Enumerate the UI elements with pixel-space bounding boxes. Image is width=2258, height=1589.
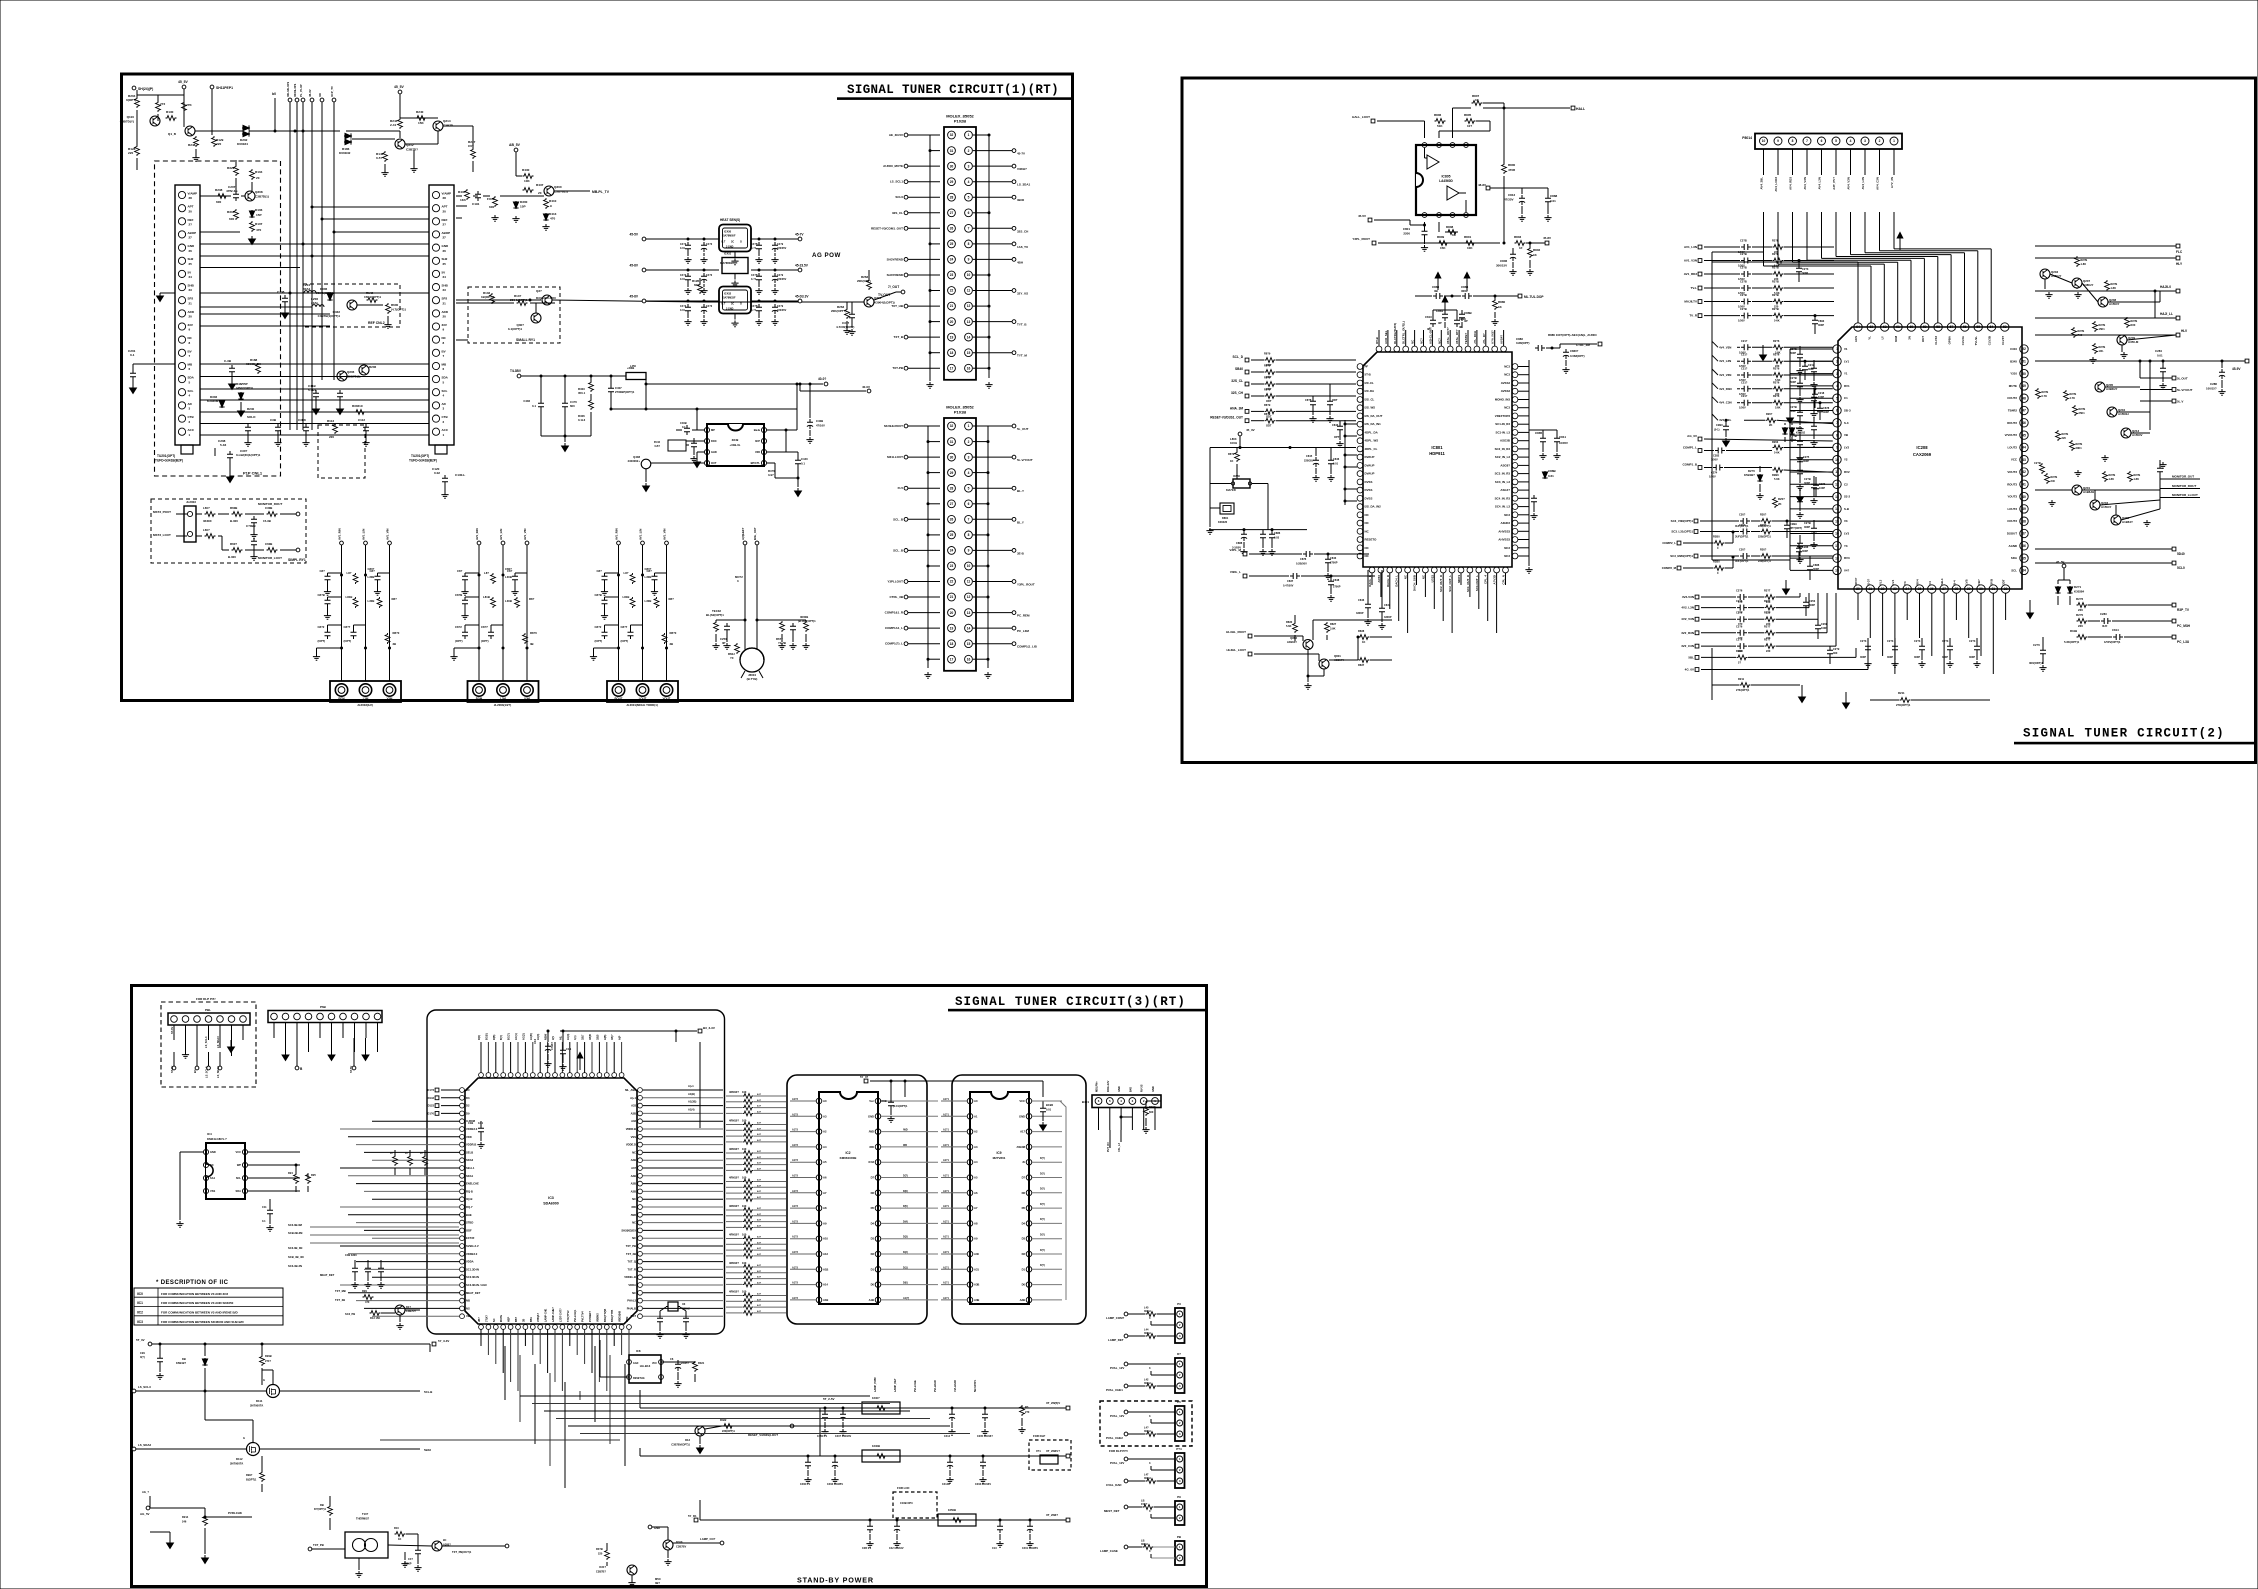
svg-text:51K: 51K: [1437, 124, 1443, 128]
svg-text:ODT: ODT: [1332, 398, 1338, 402]
input COMP2_L: [1677, 541, 1681, 545]
svg-text:V3PL_M: V3PL_M: [1229, 548, 1241, 552]
wire: [1442, 573, 1444, 621]
pin 11 RV2: [1833, 468, 1841, 476]
terminal 3034L3P1: [295, 98, 299, 102]
wire: [643, 1268, 723, 1270]
capacitor series: [1741, 400, 1751, 406]
svg-text:R2?7: R2?7: [1764, 624, 1771, 628]
svg-text:C112: C112: [358, 418, 365, 422]
svg-text:BC(0): BC(0): [485, 1033, 488, 1040]
svg-text:C21?: C21?: [1741, 367, 1748, 371]
diode D808 1K: [1447, 230, 1458, 235]
wire: [200, 411, 429, 413]
svg-text:8: 8: [1792, 139, 1794, 143]
pin 19: [948, 624, 956, 632]
svg-text:A1?: A1?: [757, 1304, 762, 1307]
svg-text:C4?B: C4?B: [751, 305, 758, 308]
svg-text:274?: 274?: [265, 1359, 271, 1363]
rail DVAUP: [1210, 447, 1356, 449]
svg-text:C203 300/16V: C203 300/16V: [975, 1483, 991, 1486]
capacitor input B: [703, 300, 706, 303]
pin 30: [948, 162, 956, 170]
resistor R321: [693, 1361, 698, 1372]
wire: [1032, 1284, 1062, 1286]
svg-text:RESET-V3/D3S1_OUT: RESET-V3/D3S1_OUT: [1210, 416, 1243, 420]
svg-text:20: 20: [538, 191, 542, 195]
wire: [621, 1329, 623, 1355]
svg-text:12: 12: [967, 595, 971, 599]
pin MEAT_DET: [460, 1290, 465, 1295]
wire: [1784, 374, 1833, 376]
svg-text:300P: 300P: [1808, 367, 1814, 371]
pin bottom NC: [1423, 567, 1429, 573]
wire TXT_B: [908, 336, 940, 338]
svg-text:A3HD3: A3HD3: [1501, 521, 1511, 525]
svg-text:P6B: P6B: [320, 1005, 327, 1009]
svg-text:SC2_OUT_L: SC2_OUT_L: [1448, 575, 1452, 592]
resistor R240 15K: [416, 116, 427, 121]
wire: [881, 1207, 938, 1209]
svg-text:1F: 1F: [1519, 246, 1523, 250]
wire: [348, 1214, 460, 1216]
svg-text:LS_SCL3: LS_SCL3: [204, 1036, 208, 1048]
wire 32S_CL: [908, 212, 940, 214]
pin top DLCTRL_OUT(L): [1403, 346, 1409, 352]
capacitor C407 2700BP(OPT): [610, 375, 613, 378]
wire: [928, 472, 940, 474]
svg-text:REF CNL2: REF CNL2: [368, 321, 385, 325]
pin 59: [1921, 323, 1929, 331]
wire: [137, 94, 158, 96]
svg-text:A1?1: A1?1: [943, 1098, 950, 1101]
svg-text:FOR COMMUNICATION BETWEEN V3 A: FOR COMMUNICATION BETWEEN V3 AND SD4650: [161, 1301, 234, 1305]
output 5L.V: [2140, 400, 2172, 402]
svg-text:C4B 3300: C4B 3300: [345, 1253, 357, 1257]
svg-text:PVLLDAD: PVLLDAD: [934, 1380, 937, 1392]
pin top XTAL_OUT?: [1447, 346, 1453, 352]
pin 5 SDA: [178, 376, 185, 383]
node: [526, 647, 529, 650]
wire: [502, 1042, 504, 1073]
wire: [1032, 1115, 1062, 1117]
pin bottom SC2_OUT_R: [1440, 567, 1446, 573]
svg-text:XTAL_DT?: XTAL_DT?: [1455, 329, 1459, 344]
wire: [372, 1276, 460, 1278]
svg-text:56: 56: [1963, 325, 1967, 329]
svg-text:27K(OPT)1: 27K(OPT)1: [1736, 688, 1750, 692]
wire: [1345, 500, 1357, 502]
svg-text:A1?: A1?: [757, 1196, 762, 1199]
svg-text:D1: D1: [1022, 1267, 1026, 1271]
svg-text:C275: C275: [1803, 455, 1810, 459]
pin A3B: [638, 1189, 643, 1194]
terminal D1?3: [435, 1088, 439, 1092]
svg-text:19: 19: [950, 626, 954, 630]
pin A8: [967, 1221, 973, 1227]
terminal 3CP_TV: [332, 98, 336, 102]
svg-text:A33: A33: [631, 1104, 636, 1108]
wire CVAL_DAD: [1146, 1479, 1157, 1484]
svg-text:C878: C878: [1823, 406, 1830, 410]
terminal D143: [435, 1096, 439, 1100]
svg-text:A1?3: A1?3: [792, 1282, 799, 1285]
svg-text:VDDE.D: VDDE.D: [626, 1143, 636, 1147]
terminal 3D: [320, 98, 324, 102]
svg-text:SB40: SB40: [1235, 367, 1243, 371]
svg-text:R238: R238: [215, 188, 223, 192]
svg-text:A1?: A1?: [757, 1184, 762, 1187]
svg-text:R3L_OUT: R3L_OUT: [753, 527, 757, 540]
svg-text:B(7): B(7): [500, 1035, 503, 1040]
pin B3H(TTV)B: [604, 1325, 609, 1330]
pin 21: [948, 302, 956, 310]
svg-text:R430: R430: [522, 168, 530, 172]
svg-text:C2B9: C2B9: [1790, 522, 1797, 526]
terminal: [525, 541, 529, 545]
svg-text:A1?: A1?: [757, 1224, 762, 1227]
svg-text:63: 63: [1869, 325, 1873, 329]
terminal: [364, 541, 368, 545]
rail 3: [700, 1519, 1066, 1521]
svg-text:0.7K: 0.7K: [2042, 394, 2048, 398]
wire: [576, 1042, 578, 1073]
wire SCL_B: [908, 549, 940, 551]
pin 13 DVAUP: [1357, 463, 1363, 469]
svg-text:R321: R321: [698, 1361, 705, 1365]
panel 2 frame: SIGNAL TUNER CIRCUIT(2): [1182, 78, 2256, 763]
svg-text:220(OPT)1: 220(OPT)1: [1758, 535, 1771, 539]
svg-text:0-1: 0-1: [532, 404, 536, 408]
pin 1: [704, 427, 709, 432]
wire: [356, 1144, 460, 1146]
svg-text:1: 1: [968, 424, 970, 428]
pin 5: [242, 1188, 247, 1193]
svg-text:C2?B: C2?B: [1790, 405, 1797, 409]
svg-text:NC: NC: [210, 1163, 214, 1167]
svg-text:SCB.3B.3M: SCB.3B.3M: [288, 1231, 303, 1235]
svg-text:48-8V: 48-8V: [1478, 183, 1486, 187]
pin VDDE3.0: [460, 1251, 465, 1256]
svg-text:R3?B: R3?B: [596, 1547, 603, 1551]
svg-text:L42: L42: [1144, 1378, 1149, 1382]
svg-text:15K: 15K: [418, 121, 424, 125]
svg-text:1: 1: [1893, 139, 1895, 143]
pin 28: [948, 484, 956, 492]
op-amp triangle A: [1427, 155, 1439, 169]
svg-text:VDDA: VDDA: [628, 1283, 636, 1287]
node: [502, 647, 505, 650]
capacitor series C2xB 1UF: [1741, 285, 1751, 291]
svg-text:R801: R801: [1464, 235, 1472, 239]
pin A4: [967, 1159, 973, 1165]
svg-text:0.88(OPT): 0.88(OPT): [1516, 341, 1530, 345]
pin bottom CPL_N: [1503, 567, 1509, 573]
wire: [1345, 423, 1357, 425]
svg-text:COMP1(?)_L: COMP1(?)_L: [885, 642, 903, 646]
capacitor C403 100/35V: [832, 1459, 838, 1469]
capacitor C885 0.01: [1260, 531, 1266, 541]
pin 3: [1129, 1098, 1136, 1105]
svg-text:A1?: A1?: [757, 1133, 762, 1136]
capacitor series: [1737, 605, 1747, 611]
svg-text:R827: R827: [1330, 622, 1337, 626]
svg-text:AV1_VIN: AV1_VIN: [663, 529, 667, 540]
tuner IC strip TU202 B: [429, 185, 454, 445]
svg-text:S-3: S-3: [1844, 421, 1849, 425]
svg-text:REM: REM: [338, 697, 345, 701]
svg-text:C8?B: C8?B: [318, 593, 325, 597]
svg-text:C837: C837: [1287, 579, 1294, 583]
pin VDDR.B: [638, 1127, 643, 1132]
svg-text:300P: 300P: [1914, 655, 1920, 659]
wire: [564, 1382, 566, 1488]
pin 16: [965, 364, 973, 372]
wire: [248, 1190, 300, 1192]
svg-text:A1?: A1?: [757, 1219, 762, 1222]
pin 1: [171, 1016, 178, 1023]
transistor Q205 A3BDJY: [2095, 382, 2105, 392]
wire: [1345, 435, 1357, 437]
wire: [941, 1207, 967, 1209]
wire: [973, 336, 989, 338]
pin POWER?: [590, 1325, 595, 1330]
wire: [643, 1190, 723, 1192]
svg-text:7/_OUT: 7/_OUT: [888, 285, 899, 289]
svg-text:TV-L: TV-L: [1691, 286, 1698, 290]
capacitor C2xx: [1797, 495, 1803, 505]
capacitor series: [1741, 386, 1751, 392]
svg-text:32S_CL: 32S_CL: [892, 211, 903, 215]
pin 1: [1177, 1311, 1183, 1317]
svg-text:JOK1(OPT)1: JOK1(OPT)1: [316, 291, 334, 295]
svg-text:C274: C274: [1711, 471, 1718, 475]
wire: [643, 1300, 723, 1302]
ground: [249, 236, 256, 244]
tuner IC strip TU201 A: [175, 185, 200, 445]
svg-text:C2?6: C2?6: [1736, 611, 1743, 615]
svg-text:COMP2_L: COMP2_L: [1662, 541, 1676, 545]
pin L3DT-CHT?: [560, 1325, 565, 1330]
pin 4: [1118, 1098, 1125, 1105]
svg-text:ANA_3M: ANA_3M: [1230, 406, 1243, 410]
pin 25: [1915, 585, 1923, 593]
resistor R880 1K: [1493, 299, 1498, 310]
svg-text:C21?: C21?: [1741, 339, 1748, 343]
pin bottom DACH_SUB: [1414, 567, 1420, 573]
svg-text:31: 31: [950, 149, 954, 153]
wire down: [1850, 149, 1852, 175]
svg-text:C3B7D(1): C3B7D(1): [347, 375, 361, 379]
svg-text:MP: MP: [711, 428, 715, 432]
pin D2: [460, 1103, 465, 1108]
svg-text:EXT3F: EXT3F: [466, 1236, 475, 1240]
svg-text:C801: C801: [1403, 227, 1411, 231]
svg-text:32Y_US: 32Y_US: [1017, 292, 1028, 296]
pin 53: [2001, 323, 2009, 331]
svg-text:MDLPN+: MDLPN+: [1095, 1081, 1099, 1092]
wire: [1518, 390, 1529, 392]
resistor series: [1765, 595, 1776, 600]
wire: [348, 1136, 460, 1138]
wire: [1894, 593, 1896, 674]
svg-text:R2?B: R2?B: [1772, 239, 1779, 243]
svg-text:C3B7B(1(OPT)1: C3B7B(1(OPT)1: [318, 314, 341, 318]
pin 22: [948, 287, 956, 295]
ground: [2120, 352, 2127, 358]
wire: [200, 195, 231, 197]
pin 2: [1876, 137, 1884, 145]
svg-text:20: 20: [443, 315, 447, 319]
pin 3: [659, 1375, 664, 1380]
svg-text:SCL: SCL: [188, 389, 194, 393]
svg-text:22: 22: [950, 580, 954, 584]
svg-text:3649: 3649: [732, 438, 739, 442]
svg-text:BB1: BB1: [530, 1316, 533, 1322]
svg-text:AE_3N.5V: AE_3N.5V: [889, 133, 903, 137]
svg-text:(OPT): (OPT): [621, 639, 629, 643]
svg-text:300P: 300P: [1802, 271, 1808, 275]
wire: [1980, 593, 1982, 656]
svg-text:24: 24: [189, 275, 193, 279]
svg-text:D(4): D(4): [903, 1220, 908, 1223]
ground: [362, 1052, 369, 1060]
svg-text:24: 24: [950, 258, 954, 262]
pin 19 V4?: [1833, 566, 1841, 574]
svg-text:PVAL_12V: PVAL_12V: [1110, 1414, 1124, 1418]
svg-text:C2?B: C2?B: [1740, 239, 1747, 243]
svg-text:40-0V: 40-0V: [862, 385, 870, 389]
dashed block FOR DLP P/T: [161, 1002, 256, 1087]
wire TYT_M: [973, 352, 1012, 354]
wire: [1931, 593, 1933, 656]
pin 4: [1847, 137, 1855, 145]
pin 3: [1450, 143, 1455, 148]
pin 55 SC4_IN_L3: [1512, 504, 1518, 510]
svg-text:C860?: C860?: [1570, 349, 1579, 353]
svg-text:BMHZ: BMHZ: [682, 1307, 690, 1311]
svg-text:0.01: 0.01: [680, 309, 685, 312]
wire: [1784, 273, 1834, 275]
svg-text:220(OPT)1: 220(OPT)1: [722, 1429, 735, 1433]
capacitor C205 100/16?: [982, 1411, 988, 1421]
svg-text:A0: A0: [823, 1099, 827, 1103]
svg-text:100: 100: [742, 1204, 747, 1208]
output MONITOR_OUT: [2160, 478, 2200, 480]
svg-text:D1?0: D1?0: [427, 1111, 434, 1115]
pin 8: [1422, 213, 1427, 218]
svg-text:IC3: IC3: [548, 1196, 554, 1200]
wire: [643, 1245, 723, 1247]
svg-text:BP/CTL: BP/CTL: [751, 461, 761, 465]
pin NB: [460, 1298, 465, 1303]
pin SELB: [460, 1150, 465, 1155]
svg-text:4: 4: [1836, 384, 1838, 388]
wire: [928, 658, 940, 660]
svg-text:ASG3B: ASG3B: [1500, 439, 1510, 443]
svg-text:AV4_3BL: AV4_3BL: [1760, 177, 1764, 190]
svg-text:36: 36: [2022, 544, 2026, 548]
P102B right bus: [988, 135, 990, 378]
svg-text:COMP1_L: COMP1_L: [1683, 446, 1697, 450]
resistor R8xx ODT: [1265, 418, 1276, 423]
node: [364, 647, 367, 650]
pin: [530, 1073, 535, 1078]
ground arrow inputs: [1760, 352, 1767, 360]
svg-text:R240: R240: [416, 110, 424, 114]
svg-text:C1B: C1B: [468, 1121, 473, 1125]
resistor R286 5-6K: [1773, 468, 1784, 473]
svg-text:C40? 100/16V: C40? 100/16V: [835, 1435, 851, 1438]
svg-text:Q206: Q206: [347, 370, 355, 374]
pin 20 APT: [178, 205, 185, 212]
svg-text:20: 20: [189, 209, 193, 213]
svg-text:VCC: VCC: [652, 1362, 657, 1365]
IC IC3 SDA6000 (QFP): [465, 1078, 637, 1324]
pin A8: [816, 1205, 822, 1211]
svg-text:LOUT: LOUT: [639, 697, 647, 701]
svg-text:ODF: ODF: [466, 1228, 472, 1232]
capacitor input A: [687, 238, 690, 241]
wire: [200, 243, 429, 245]
svg-text:300P: 300P: [1809, 603, 1815, 607]
wire: [1518, 530, 1529, 532]
svg-text:SOLO: SOLO: [247, 415, 256, 419]
pin /WD: [875, 1129, 881, 1135]
svg-text:220/35V: 220/35V: [777, 247, 787, 250]
svg-text:R8?9: R8?9: [1264, 403, 1271, 407]
svg-text:CAX2069: CAX2069: [1913, 452, 1932, 457]
pin bottom NC: [1405, 567, 1411, 573]
svg-text:16: 16: [1835, 532, 1839, 536]
svg-text:3B: 3B: [393, 642, 397, 646]
pin HEP: [508, 1325, 513, 1330]
svg-text:PUT_D3: PUT_D3: [1107, 1142, 1110, 1152]
svg-text:D(?): D(?): [1040, 1188, 1045, 1191]
svg-text:3-1(OPT)1: 3-1(OPT)1: [508, 327, 523, 331]
svg-text:33V: 33V: [188, 323, 193, 327]
pin 72 NC3: [1512, 364, 1518, 370]
pin 52 C310: [2020, 345, 2028, 353]
capacitor C45B 0.01(OPT): [888, 1099, 894, 1109]
svg-text:C60B: C60B: [265, 542, 272, 546]
pin 2 CTB: [432, 415, 439, 422]
pin D3: [1026, 1236, 1032, 1242]
wire: [1505, 573, 1507, 585]
wire: [364, 1190, 460, 1192]
pin 61: [1894, 323, 1902, 331]
pin LAMP-CHE?: [553, 1325, 558, 1330]
capacitor cluster row1: [478, 574, 481, 577]
svg-text:C3B7BV(OPT)1: C3B7BV(OPT)1: [671, 1443, 690, 1447]
wire: [1943, 593, 1945, 674]
output MONITOR_ROUT: [2160, 488, 2200, 490]
svg-text:19: 19: [950, 335, 954, 339]
input 4V4_SEL: [1712, 414, 1718, 420]
svg-text:0-?1: 0-?1: [751, 278, 757, 281]
pin A1B: [816, 1297, 822, 1303]
svg-text:42: 42: [2022, 470, 2026, 474]
capacitor C888 ODT pair: [1310, 398, 1316, 408]
svg-text:C88B: C88B: [1548, 469, 1557, 473]
svg-text:A13: A13: [823, 1252, 828, 1256]
pin 1 ACC: [432, 428, 439, 435]
svg-text:O: O: [740, 241, 742, 244]
wire: [200, 313, 330, 315]
svg-text:PVAL_CHE1: PVAL_CHE1: [1106, 1388, 1123, 1392]
svg-text:A3T_PV?: A3T_PV?: [1832, 177, 1836, 190]
svg-text:D13: D13: [685, 1438, 690, 1442]
